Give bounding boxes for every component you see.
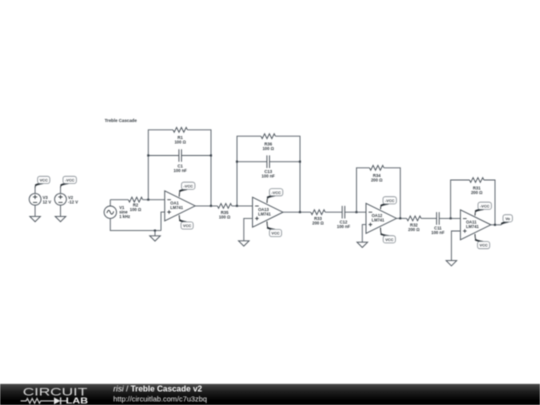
- voltage source V3: [29, 193, 51, 205]
- junction: [236, 161, 238, 163]
- svg-text:100 Ω: 100 Ω: [219, 214, 231, 219]
- wire: [34, 187, 36, 193]
- svg-text:-VCC: -VCC: [385, 198, 395, 203]
- svg-text:-VCC: -VCC: [183, 183, 193, 188]
- svg-text:risi / Treble Cascade v2: risi / Treble Cascade v2: [113, 384, 202, 393]
- resistor R32: [407, 216, 421, 232]
- svg-text:100 Ω: 100 Ω: [174, 140, 186, 145]
- net flag VCC (OA1): [179, 215, 193, 229]
- wire: [148, 130, 173, 200]
- junction: [399, 217, 401, 219]
- svg-text:-VCC: -VCC: [271, 190, 281, 195]
- svg-text:LM741: LM741: [170, 205, 183, 210]
- ground: [446, 261, 457, 266]
- svg-text:1 kHz: 1 kHz: [119, 214, 130, 219]
- voltage source V2: [55, 193, 79, 205]
- wire: [161, 212, 165, 231]
- svg-text:100 Ω: 100 Ω: [130, 207, 142, 212]
- wire: [143, 199, 165, 201]
- wire: [283, 211, 311, 213]
- footer bar: [0, 384, 540, 405]
- wire: [484, 180, 495, 225]
- junction: [210, 205, 212, 207]
- net flag VCC (OA13): [267, 221, 282, 236]
- junction: [210, 154, 212, 156]
- ground: [55, 216, 66, 221]
- wire: [451, 231, 460, 261]
- wire: [148, 155, 179, 157]
- wire: [232, 205, 253, 207]
- capacitor C1: [174, 149, 188, 173]
- svg-text:VCC: VCC: [183, 223, 191, 228]
- op-amp OA11: [460, 210, 491, 240]
- junction: [299, 211, 301, 213]
- net flag -VCC (OA11): [475, 202, 491, 215]
- svg-text:100 nF: 100 nF: [174, 168, 188, 173]
- wire: [357, 168, 370, 212]
- capacitor C13: [262, 155, 276, 178]
- wire: [195, 205, 217, 207]
- resistor R31: [470, 178, 484, 195]
- svg-text:100 Ω: 100 Ω: [262, 146, 274, 151]
- svg-text:-12 V: -12 V: [68, 200, 78, 205]
- wire: [244, 218, 253, 240]
- svg-text:100 nF: 100 nF: [431, 230, 445, 235]
- svg-text:100 nF: 100 nF: [337, 224, 351, 229]
- svg-text:VCC: VCC: [385, 237, 393, 242]
- net flag -VCC (OA13): [267, 189, 283, 203]
- wire: [182, 155, 212, 157]
- svg-text:http://circuitlab.com/c7u3zbq: http://circuitlab.com/c7u3zbq: [113, 394, 207, 403]
- junction: [299, 161, 301, 163]
- wire: [110, 218, 161, 230]
- net flag Vo: [501, 215, 512, 225]
- op-amp OA12: [366, 203, 397, 233]
- wire: [60, 205, 62, 216]
- wire: [110, 199, 128, 201]
- wire: [275, 136, 300, 212]
- wire: [34, 205, 36, 216]
- resistor R2: [128, 197, 142, 212]
- wire: [421, 217, 437, 219]
- wire: [237, 161, 267, 163]
- ground: [30, 216, 41, 221]
- svg-text:12 V: 12 V: [43, 200, 52, 205]
- net flag -VCC (OA12): [381, 197, 397, 210]
- wire: [439, 217, 460, 219]
- resistor R34: [370, 165, 384, 182]
- junction: [355, 211, 357, 213]
- resistor R33: [311, 210, 325, 226]
- voltage source V1: [104, 205, 130, 219]
- wire: [345, 211, 366, 213]
- wire: [60, 187, 62, 193]
- resistor R1: [173, 127, 187, 144]
- wire: [187, 130, 211, 206]
- footer title risi / Treble Cascade v2: [113, 384, 202, 393]
- svg-text:VCC: VCC: [271, 231, 279, 236]
- CircuitLab logo wordmark CIRCUIT: [23, 387, 88, 399]
- svg-text:LM741: LM741: [372, 218, 385, 223]
- junction: [147, 199, 149, 201]
- footer url: [113, 394, 207, 403]
- svg-text:VCC: VCC: [479, 243, 487, 248]
- net flag -VCC (V2): [61, 176, 77, 187]
- ground: [150, 231, 161, 242]
- svg-text:LM741: LM741: [466, 224, 479, 229]
- ground: [239, 241, 250, 246]
- junction: [236, 205, 238, 207]
- svg-text:LM741: LM741: [258, 211, 271, 216]
- wire: [362, 225, 366, 243]
- wire: [270, 161, 301, 163]
- CircuitLab logo wordmark LAB: [66, 395, 88, 405]
- svg-text:200 Ω: 200 Ω: [471, 190, 483, 195]
- svg-text:-VCC: -VCC: [480, 203, 490, 208]
- op-amp OA1: [165, 191, 196, 221]
- svg-text:LAB: LAB: [66, 395, 88, 405]
- wire: [325, 211, 342, 213]
- CircuitLab logo resistor-diode symbol: [21, 397, 67, 404]
- wire: [109, 200, 111, 206]
- ground: [357, 242, 368, 247]
- junction: [154, 230, 156, 232]
- wire: [451, 180, 470, 218]
- capacitor C11: [431, 212, 445, 235]
- net flag VCC (OA12): [381, 228, 396, 243]
- svg-text:VCC: VCC: [40, 178, 48, 183]
- svg-text:200 Ω: 200 Ω: [408, 227, 420, 232]
- junction: [147, 154, 149, 156]
- net flag -VCC (OA1): [179, 182, 195, 197]
- net flag VCC (OA11): [475, 234, 490, 249]
- svg-text:Treble Cascade: Treble Cascade: [105, 118, 138, 123]
- wire: [491, 224, 501, 226]
- net flag VCC (V3): [35, 176, 50, 187]
- svg-text:-VCC: -VCC: [65, 178, 75, 183]
- title Treble Cascade: [105, 118, 138, 123]
- junction: [450, 217, 452, 219]
- svg-text:200 Ω: 200 Ω: [371, 177, 383, 182]
- junction: [494, 224, 496, 226]
- op-amp OA13: [253, 197, 284, 227]
- resistor R36: [261, 134, 275, 151]
- svg-text:200 Ω: 200 Ω: [312, 221, 324, 226]
- svg-text:Vo: Vo: [505, 216, 510, 221]
- wire: [237, 136, 261, 206]
- capacitor C12: [337, 206, 351, 229]
- wire: [384, 168, 400, 219]
- wire: [397, 217, 407, 219]
- resistor R35: [217, 204, 231, 220]
- svg-text:100 nF: 100 nF: [262, 173, 276, 178]
